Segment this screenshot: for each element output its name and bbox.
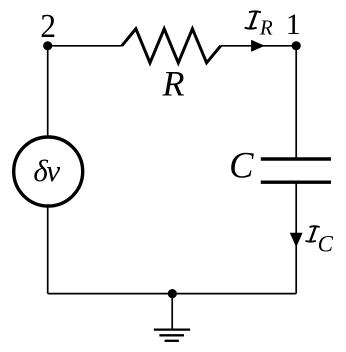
svg-text:C: C xyxy=(229,145,254,186)
svg-text:R: R xyxy=(162,64,185,104)
svg-text:R: R xyxy=(259,15,273,39)
svg-text:2: 2 xyxy=(40,8,56,45)
svg-text:C: C xyxy=(318,232,334,257)
svg-text:δv: δv xyxy=(33,153,60,188)
svg-text:1: 1 xyxy=(286,8,301,41)
